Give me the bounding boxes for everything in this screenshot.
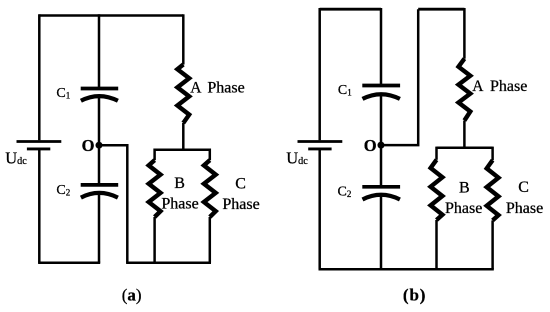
wire: capacitor branch bottom (a): [98, 193, 101, 262]
resistor C Phase (b): [487, 160, 499, 220]
battery Udc short plate (b): [308, 147, 331, 150]
battery Udc long plate (b): [298, 140, 343, 143]
capacitor C1 top plate (a): [81, 87, 119, 91]
resistor C Phase (a): [204, 160, 216, 217]
wire: A phase branch lower (b): [463, 121, 466, 148]
resistor B Phase (a): [149, 160, 161, 217]
wire: top rail right segment (b): [418, 8, 464, 11]
svg-text:C1: C1: [338, 83, 352, 98]
wire: left branch lower (a): [38, 149, 41, 263]
capacitor C2 curved plate (a): [81, 193, 118, 198]
wire: top rail (a): [39, 14, 183, 17]
capacitor C1 curved plate (a): [81, 96, 118, 101]
wire: B/C mesh top (a): [155, 148, 210, 151]
capacitor C2 curved plate (b): [363, 195, 400, 200]
wire: B branch stub bottom (b): [435, 220, 438, 269]
svg-text:Phase: Phase: [207, 80, 244, 97]
resistor B Phase (b): [431, 160, 443, 220]
svg-text:C2: C2: [338, 185, 352, 200]
svg-text:Phase: Phase: [222, 196, 259, 213]
svg-text:A: A: [190, 80, 202, 97]
svg-text:C: C: [518, 179, 529, 196]
wire: left branch upper (b): [318, 8, 321, 140]
svg-text:C: C: [235, 175, 246, 192]
battery Udc long plate (a): [17, 140, 62, 143]
capacitor C1 top plate (b): [362, 84, 400, 88]
resistor A Phase (b): [459, 59, 471, 121]
wire: bottom rail (b): [319, 268, 494, 271]
node O junction dot (a): [96, 142, 103, 149]
svg-text:Phase: Phase: [445, 200, 482, 217]
wire: top rail left segment (b): [320, 8, 381, 11]
capacitor C2 top plate (a): [81, 183, 119, 187]
svg-text:C2: C2: [56, 183, 70, 198]
wire: node O to top rail right segment (b): [381, 9, 418, 145]
wire: bottom rail battery-C2 (a): [38, 261, 100, 264]
wire: B branch stub bottom (a): [153, 217, 156, 263]
wire: B branch stub top (b): [435, 147, 438, 160]
wire: left branch lower (b): [318, 149, 321, 269]
svg-text:Phase: Phase: [161, 196, 198, 213]
wire: capacitor branch bottom (b): [380, 195, 383, 269]
wire: capacitor branch top (b): [380, 8, 383, 86]
svg-text:B: B: [459, 179, 470, 196]
svg-text:(a): (a): [122, 286, 142, 305]
svg-text:A: A: [472, 78, 484, 95]
svg-text:Udc: Udc: [286, 149, 308, 168]
wire: left branch upper (a): [38, 14, 41, 140]
node O junction dot (b): [378, 142, 385, 149]
svg-text:B: B: [174, 175, 185, 192]
svg-text:(b): (b): [403, 286, 426, 305]
wire: C branch stub top (b): [491, 147, 494, 161]
wire: B branch stub top (a): [153, 149, 156, 161]
capacitor C2 top plate (b): [362, 185, 400, 189]
svg-text:O: O: [82, 136, 95, 155]
wire: capacitor branch middle (a): [98, 97, 101, 185]
wire: C branch stub bottom (a): [209, 217, 212, 263]
wire: bottom rail of B/C mesh (a): [126, 261, 211, 264]
wire: B/C mesh top (b): [437, 147, 493, 150]
wire: C branch stub top (a): [209, 149, 212, 161]
wire: A phase branch lower (a): [182, 123, 185, 150]
svg-text:O: O: [364, 136, 377, 155]
capacitor C1 curved plate (b): [363, 94, 400, 99]
wire: capacitor branch middle (b): [380, 95, 383, 187]
wire: node O to BC bottom (a): [99, 145, 127, 263]
svg-text:Udc: Udc: [5, 149, 27, 168]
wire: A phase branch upper (a): [182, 14, 185, 64]
svg-text:C1: C1: [56, 86, 70, 101]
svg-text:Phase: Phase: [506, 200, 543, 217]
resistor A Phase (a): [177, 65, 189, 124]
wire: capacitor branch top (a): [98, 14, 101, 88]
wire: C branch stub bottom (b): [491, 220, 494, 269]
battery Udc short plate (a): [27, 147, 50, 150]
wire: A phase branch upper (b): [463, 8, 466, 59]
svg-text:Phase: Phase: [490, 78, 527, 95]
